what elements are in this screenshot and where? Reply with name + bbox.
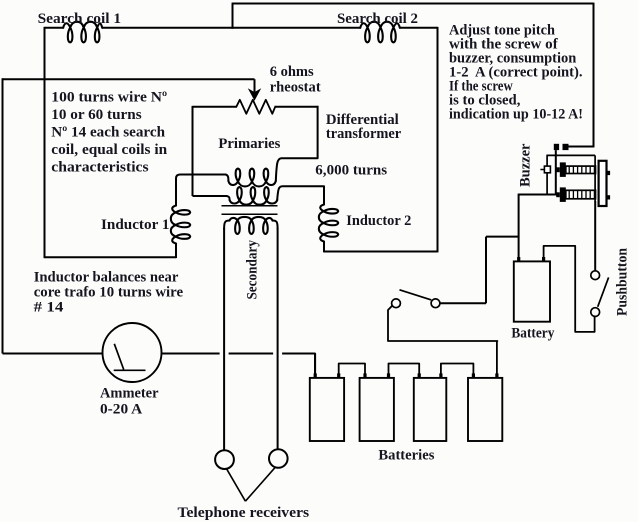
wire switch right lead <box>440 302 486 304</box>
wire secondary left vertical <box>223 228 225 450</box>
svg-text:Pushbutton: Pushbutton <box>615 247 631 316</box>
pushbutton top circle <box>591 271 600 280</box>
wire inductor2 vertical upper <box>323 186 325 204</box>
svg-text:Inductor 2: Inductor 2 <box>346 213 411 229</box>
battery cell 4 rectangle <box>468 378 502 441</box>
battery cell 1 left terminal <box>314 373 317 378</box>
big battery rectangle <box>514 261 550 321</box>
wire buzzer square1 down <box>555 150 557 194</box>
buzzer terminal square 1 <box>554 144 559 150</box>
wire outer top-left vertical <box>232 4 234 29</box>
wire top segment right <box>400 27 438 29</box>
wire ammeter right lead seg1 <box>162 353 220 355</box>
wire secondary right shoulder <box>273 221 278 230</box>
battery cell 1 right terminal <box>337 373 340 378</box>
wire lower primary left shoulder <box>227 196 230 200</box>
wire big battery right path <box>544 246 595 332</box>
wire upper primary left shoulder <box>226 175 229 182</box>
transformer core line 2 <box>222 213 278 215</box>
svg-text:Inductor balances near: Inductor balances near <box>34 270 179 286</box>
wire lower primary left lead <box>193 195 227 197</box>
buzzer terminal square 2 <box>563 144 569 150</box>
big battery right terminal <box>542 257 545 262</box>
wire down to battery cell 1 <box>314 354 316 378</box>
svg-text:Search coil 2: Search coil 2 <box>337 11 418 27</box>
buzzer coil 1 body <box>566 166 596 173</box>
search coil 1 inductor <box>63 22 102 43</box>
rheostat zigzag 6 ohms <box>236 100 275 114</box>
svg-text:transformer: transformer <box>326 126 402 142</box>
buzzer contact screw tick <box>540 169 544 171</box>
wiper arrowhead <box>249 90 259 100</box>
svg-text:Buzzer: Buzzer <box>518 143 534 187</box>
big battery left terminal <box>517 257 520 262</box>
svg-text:100 turns wire Nº: 100 turns wire Nº <box>51 90 167 106</box>
upper primary coil <box>228 169 275 187</box>
wire rheostat left vertical <box>192 106 194 196</box>
secondary coil <box>230 217 273 234</box>
pushbutton bottom circle <box>591 308 600 317</box>
buzzer coil 1 nub <box>556 167 560 172</box>
svg-text:rheostat: rheostat <box>270 80 321 96</box>
ammeter needle <box>114 344 123 370</box>
wire secondary right vertical <box>277 228 279 449</box>
svg-text:Search coil 1: Search coil 1 <box>38 11 122 27</box>
wire ammeter right lead seg2 <box>229 353 274 355</box>
wire switch right vertical <box>485 237 487 304</box>
buzzer armature bottom nub <box>607 195 611 199</box>
wire wiper vertical <box>254 79 256 92</box>
svg-text:Nº 14 each search: Nº 14 each search <box>51 125 165 141</box>
wire jumper cell 1 to cell 2 <box>339 364 365 376</box>
buzzer coil 2 body <box>566 190 596 199</box>
svg-text:indication up 10-12 A!: indication up 10-12 A! <box>449 107 583 123</box>
svg-text:6,000 turns: 6,000 turns <box>315 163 387 179</box>
wire rheostat left lead <box>193 106 237 108</box>
wire switch left down and across <box>388 306 497 341</box>
svg-text:Batteries: Batteries <box>378 448 434 464</box>
battery cell 1 rectangle <box>310 378 344 441</box>
buzzer coil 1 cap <box>560 162 566 177</box>
wire top segment middle <box>102 27 360 29</box>
wire inner box bottom <box>324 251 438 253</box>
battery cell 4 right terminal <box>495 373 498 378</box>
telephone receiver left <box>215 450 234 469</box>
wire inner box right vertical <box>437 27 439 253</box>
wire outer top horizontal <box>232 3 594 5</box>
wire ammeter right lead seg3 <box>282 353 315 355</box>
switch lever <box>400 290 432 300</box>
buzzer contact screw square <box>544 166 550 173</box>
svg-text:characteristics: characteristics <box>51 160 148 176</box>
wire inductor1 vertical upper <box>176 175 226 206</box>
buzzer coil 2 nub <box>556 192 560 197</box>
battery cell 3 rectangle <box>414 378 447 441</box>
wire outer right vertical <box>593 3 595 147</box>
switch left contact circle <box>392 299 401 308</box>
buzzer right vertical <box>594 155 596 201</box>
battery cell 4 left terminal <box>472 373 475 378</box>
svg-text:Ammeter: Ammeter <box>100 386 159 402</box>
wire wiper horizontal <box>3 78 255 80</box>
switch right contact circle <box>431 299 440 308</box>
ammeter circle <box>103 323 162 382</box>
svg-text:# 14: # 14 <box>34 300 64 316</box>
wire left edge vertical <box>2 78 4 353</box>
wire buzzer square2 to right <box>569 146 595 148</box>
buzzer frame top <box>546 154 595 156</box>
search coil 2 inductor <box>360 22 400 43</box>
svg-text:Primaries: Primaries <box>218 136 280 152</box>
wire big battery left vertical <box>518 195 520 262</box>
wire pushbutton top vertical <box>594 201 596 271</box>
svg-text:6 ohms: 6 ohms <box>270 64 314 80</box>
buzzer armature <box>599 161 607 206</box>
wire inductor2 vertical lower <box>323 242 325 253</box>
inductor 2 coil <box>319 205 338 242</box>
wire battery cell1 left terminal up <box>314 354 316 376</box>
battery cell 2 left terminal <box>363 373 366 378</box>
battery cell 3 left terminal <box>418 373 421 378</box>
wire ammeter left lead <box>3 353 104 355</box>
pushbutton lever <box>598 277 609 306</box>
wire receiver V left <box>226 468 245 501</box>
transformer core line 1 <box>222 205 278 207</box>
wire lower primary right shoulder <box>277 186 324 200</box>
svg-text:10 or 60 turns: 10 or 60 turns <box>51 107 141 123</box>
wire upper primary right shoulder <box>276 158 318 181</box>
lower primary coil <box>230 187 278 205</box>
wire buzzer bottom to battery <box>518 194 557 196</box>
wire switch top horizontal <box>486 236 519 238</box>
ammeter needle base <box>114 369 146 371</box>
wire jumper cell 3 to cell 4 <box>441 364 474 376</box>
svg-text:Secondary: Secondary <box>245 240 261 300</box>
wire left box vertical <box>44 27 46 258</box>
buzzer frame left vertical <box>546 155 548 194</box>
wire left box bottom <box>45 256 177 258</box>
inductor 1 coil <box>171 206 190 244</box>
svg-text:0-20 A: 0-20 A <box>100 402 142 418</box>
svg-text:Battery: Battery <box>511 326 554 342</box>
wire secondary left shoulder <box>224 221 229 230</box>
svg-text:coil, equal coils in: coil, equal coils in <box>51 142 167 158</box>
wire inductor1 vertical lower <box>175 244 177 259</box>
wire upper primary right vertical <box>317 106 319 158</box>
wire battery cell4 right terminal up <box>496 341 498 375</box>
telephone receiver right <box>269 449 288 468</box>
battery cell 2 rectangle <box>360 378 394 441</box>
wire top segment left <box>45 27 64 29</box>
svg-text:Inductor 1: Inductor 1 <box>101 217 169 233</box>
wire rheostat right lead <box>275 106 319 108</box>
buzzer armature top nub <box>607 171 611 175</box>
wire jumper cell 2 to cell 3 <box>389 364 420 376</box>
battery cell 2 right terminal <box>387 373 390 378</box>
battery cell 3 right terminal <box>439 373 442 378</box>
buzzer coil 2 cap <box>560 187 566 202</box>
svg-text:Telephone receivers: Telephone receivers <box>178 505 310 521</box>
svg-text:core trafo 10 turns wire: core trafo 10 turns wire <box>34 285 184 301</box>
wire receiver V right <box>245 467 275 502</box>
